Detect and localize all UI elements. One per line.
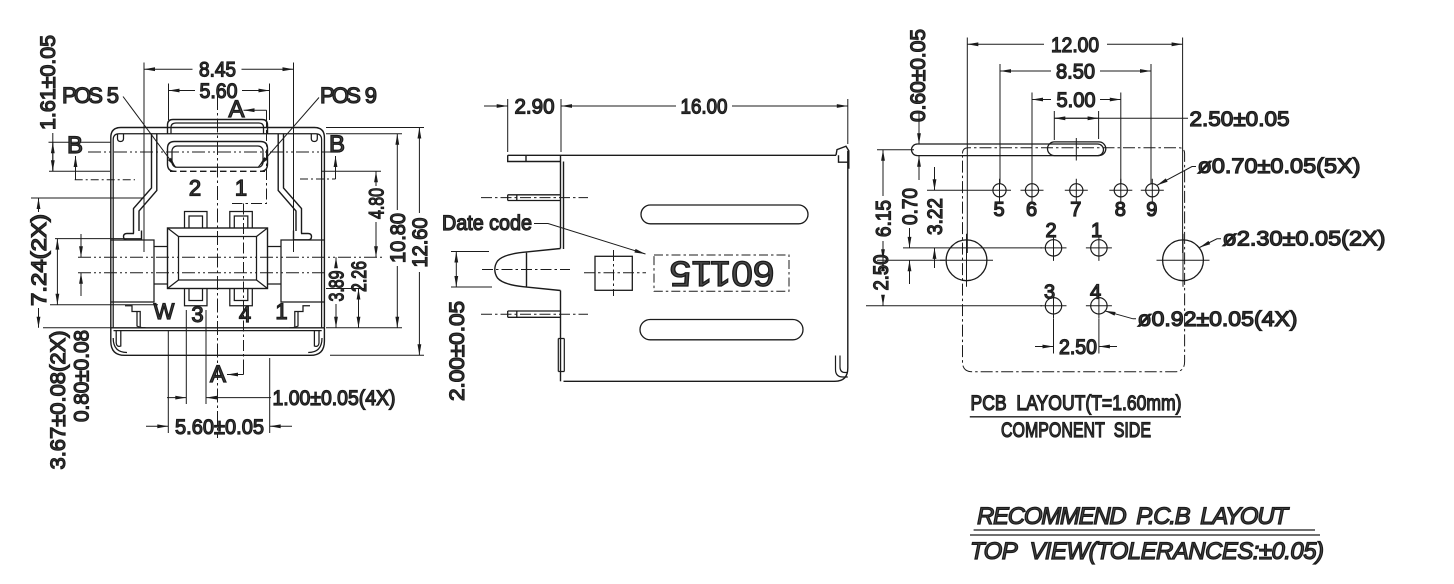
hole 8 [1114,184,1127,197]
hood rolled lip hooks [118,134,318,142]
svg-text:1: 1 [275,299,287,324]
svg-text:2.90: 2.90 [515,96,555,119]
dim 16.00 line [561,105,848,107]
dim 2.50±0.05 ext lines [1054,111,1098,140]
dim 4.80 ext top [322,170,381,172]
left EMI leg [134,134,157,234]
svg-text:PCB LAYOUT(T=1.60mm): PCB LAYOUT(T=1.60mm) [971,392,1182,415]
dim 3.89 line [335,257,337,328]
section B right arrow [335,156,337,179]
pin 2 top [185,212,208,229]
dim 6.15 ext lines [877,150,945,260]
mating slot outer [168,142,268,172]
svg-text:B: B [329,131,345,158]
svg-text:2: 2 [189,176,201,201]
center overmold box inner bevel [179,237,257,281]
leader Ø2.30 [1200,239,1222,248]
pin 4 [1091,298,1107,314]
svg-text:2.00±0.05: 2.00±0.05 [446,301,469,401]
leader Ø0.70 [1157,167,1196,186]
dim 12.00 [967,43,1182,45]
svg-text:ø2.30±0.05(2X): ø2.30±0.05(2X) [1223,228,1386,251]
left bottom tab [558,339,564,372]
PCB LAYOUT underline [970,416,1181,418]
base outer [111,328,325,356]
dim 0.70 ext line [903,247,1042,249]
dim 16.00 ext line [847,99,849,144]
svg-text:2.50: 2.50 [1059,336,1097,359]
pin 3 bottom [185,289,208,306]
latch centerline [482,269,570,271]
svg-text:5.60±0.05: 5.60±0.05 [175,416,264,439]
dim 12.60 exts [326,128,424,356]
svg-text:A: A [228,96,244,123]
right side block [281,240,324,302]
dim 10.80 exts [326,134,402,328]
svg-text:8.50: 8.50 [1056,61,1095,84]
right block stubs [268,247,282,285]
svg-text:1: 1 [1091,220,1102,242]
dim 1.00 arrows [167,397,271,399]
svg-text:9: 9 [1146,199,1157,221]
pin 1 top [230,212,253,229]
dim 1.61 line [52,133,54,171]
bevel corner diagonals [168,228,268,289]
lower oval slot [640,320,803,340]
svg-text:3.67±0.08(2X): 3.67±0.08(2X) [47,331,70,470]
svg-text:4: 4 [1090,282,1101,304]
dim 2.26 line [358,289,360,328]
shell slot small [1048,142,1106,156]
slot bottom dashed edge [170,170,265,172]
hole 5 [993,184,1006,197]
dim 2.50 left ext line [866,305,1042,307]
svg-text:2.50±0.05: 2.50±0.05 [1190,108,1290,131]
right wall [835,151,848,381]
shell inner wall [113,134,321,328]
dim 0.80 arrows [80,234,82,296]
base right corner detail [308,331,322,353]
lower pin centerline [481,313,588,315]
big hole left crosshair [940,234,993,287]
left side block [111,240,154,302]
dim 2.90 arrow [484,105,508,107]
svg-text:0.80±0.08: 0.80±0.08 [71,330,94,422]
pin 4 bottom [230,289,253,306]
base left corner detail [113,331,127,353]
svg-text:2.50: 2.50 [870,255,893,291]
upper pin [508,195,561,201]
dim 2.00 ext lines [451,252,492,288]
big hole left [946,240,987,281]
pin 2 [1045,240,1061,256]
dim 0.60 arrows [918,112,920,180]
dim 2.50 left line [882,260,884,306]
left leg foot [124,231,142,240]
dim 6.15 line [882,150,884,260]
connector centerline horizontal (phantom) [88,151,340,153]
shell outer wall [111,128,325,328]
svg-text:6.15: 6.15 [873,200,896,237]
dim 2.50±0.05 [1054,117,1188,119]
top tab inner [171,123,264,134]
dim 2.50 bottom ext lines [1054,319,1099,354]
svg-text:2: 2 [1045,220,1056,242]
section A top arrow [244,110,267,127]
latch bump [495,249,561,291]
dim 12.00 ext lines [967,38,1182,254]
svg-text:7.24(2X): 7.24(2X) [28,214,51,306]
svg-text:ø0.92±0.05(4X): ø0.92±0.05(4X) [1138,308,1298,331]
svg-text:1.61±0.05: 1.61±0.05 [37,35,60,130]
svg-text:0.70: 0.70 [899,188,922,225]
mating slot inner [172,146,263,167]
base top edge [114,330,322,332]
vertical centerline main [217,96,219,438]
dim 3.67 line [56,239,58,305]
svg-text:3.89: 3.89 [326,271,349,302]
shell slot long [912,144,1104,156]
date code box [654,255,789,291]
section A-A stepped cut centerline [232,130,267,361]
body bottom edge [564,380,836,382]
right EMI leg [278,134,301,234]
svg-text:12.60: 12.60 [409,218,432,268]
svg-text:W: W [154,299,175,324]
svg-text:8: 8 [1115,199,1126,221]
dim 7.24 extension line [31,197,144,199]
dim 5.60 extension lines [169,84,270,121]
svg-text:10.80: 10.80 [387,213,410,263]
upper pin centerline [481,197,588,199]
right leg foot [294,231,312,240]
dim 4.80 line [375,171,377,257]
svg-text:7: 7 [1070,199,1081,221]
left wall upper [561,155,564,249]
section B right cut line [300,178,336,180]
stamp square centerlines [584,250,646,296]
left W hook [125,306,146,328]
Date code leader [534,224,646,255]
big hole right [1163,240,1204,281]
svg-text:ø0.70±0.05(5X): ø0.70±0.05(5X) [1198,155,1361,178]
dim 2.90 ext lines [508,99,561,152]
svg-text:60115: 60115 [670,254,775,293]
hole 9 [1146,184,1159,197]
dim 3.67 extension lines [50,239,158,305]
svg-text:1: 1 [235,176,247,201]
pin 3 [1045,298,1061,314]
leader Ø0.92 [1105,311,1137,319]
top tab outer [168,120,268,134]
dim 7.24 line [38,198,40,328]
body bottom ext left [43,327,111,329]
top flange [508,155,561,161]
dim 5.00 [1032,99,1121,101]
dim 12.60 line [418,128,420,356]
svg-text:1.00±0.05(4X): 1.00±0.05(4X) [273,387,396,410]
upper oval slot [641,205,808,224]
board outline phantom [963,148,1185,372]
dim 2.00 line [455,252,457,288]
svg-text:5: 5 [993,199,1004,221]
section B left cut line [75,179,135,181]
dim 8.45 [144,68,294,70]
section B left arrow [75,156,77,180]
svg-text:RECOMMEND P.C.B LAYOUT: RECOMMEND P.C.B LAYOUT [977,503,1290,530]
left wall lower [560,291,562,382]
right top hook [836,146,849,169]
title underline 2 [970,534,1320,536]
hole 6 [1025,184,1038,197]
svg-text:4.80: 4.80 [366,188,389,219]
body bottom line [111,327,325,329]
section A bottom arrow [227,361,244,375]
svg-text:3: 3 [1044,282,1055,304]
body top edge [561,154,837,156]
svg-text:TOP VIEW(TOLERANCES:±0.05): TOP VIEW(TOLERANCES:±0.05) [970,538,1324,565]
svg-text:0.60±0.05: 0.60±0.05 [907,29,930,122]
svg-text:8.45: 8.45 [199,59,236,82]
slot center tick [1075,138,1077,161]
svg-text:COMPONENT SIDE: COMPONENT SIDE [1001,419,1151,442]
lower pin [508,311,561,317]
svg-text:6: 6 [1026,199,1037,221]
stamp square [595,256,632,290]
dim 8.45 extension lines [144,63,294,253]
bottom right corner bracket [836,356,848,378]
svg-text:4: 4 [239,302,251,327]
svg-text:16.00: 16.00 [681,96,728,119]
svg-text:12.00: 12.00 [1051,34,1099,57]
svg-text:A: A [210,361,226,388]
pin 1 [1091,240,1107,256]
dim 8.50 [1000,70,1151,72]
dim 3.22 arrows [934,167,936,268]
dim 1.00 ext lines [186,310,206,404]
POS 5 leader [123,97,176,168]
dim 5.00 ext lines [1032,93,1121,185]
big hole right crosshair [1157,234,1210,287]
svg-text:POS 5: POS 5 [62,83,119,108]
phantom line lower [78,272,326,274]
POS 9 leader [259,98,320,167]
svg-text:5.00: 5.00 [1057,89,1096,112]
dim 2.26 ext [326,288,364,290]
title underline 1 [974,529,1315,531]
hole 7 [1070,184,1083,197]
dim 3.22 ext line [927,189,988,191]
dim 2.50 bottom arrows [1035,346,1117,348]
svg-text:POS 9: POS 9 [320,83,377,108]
svg-text:3.22: 3.22 [924,198,947,235]
dim 8.50 ext lines [1000,64,1151,184]
svg-text:3: 3 [191,302,203,327]
svg-text:2.26: 2.26 [348,261,371,292]
right hook [290,306,311,328]
center overmold box outer [168,228,268,289]
left block stubs [154,247,168,285]
dim 0.70 arrows [909,228,911,284]
dim 5.60 bottom arrows [146,425,292,427]
dim 10.80 line [396,134,398,328]
svg-text:Date code: Date code [442,212,532,235]
dim 5.60 [169,90,270,92]
dim 1.61 extension lines [49,142,112,171]
svg-text:B: B [67,132,83,159]
phantom line upper [78,256,382,258]
dim 5.60 bottom ext lines [168,330,269,433]
